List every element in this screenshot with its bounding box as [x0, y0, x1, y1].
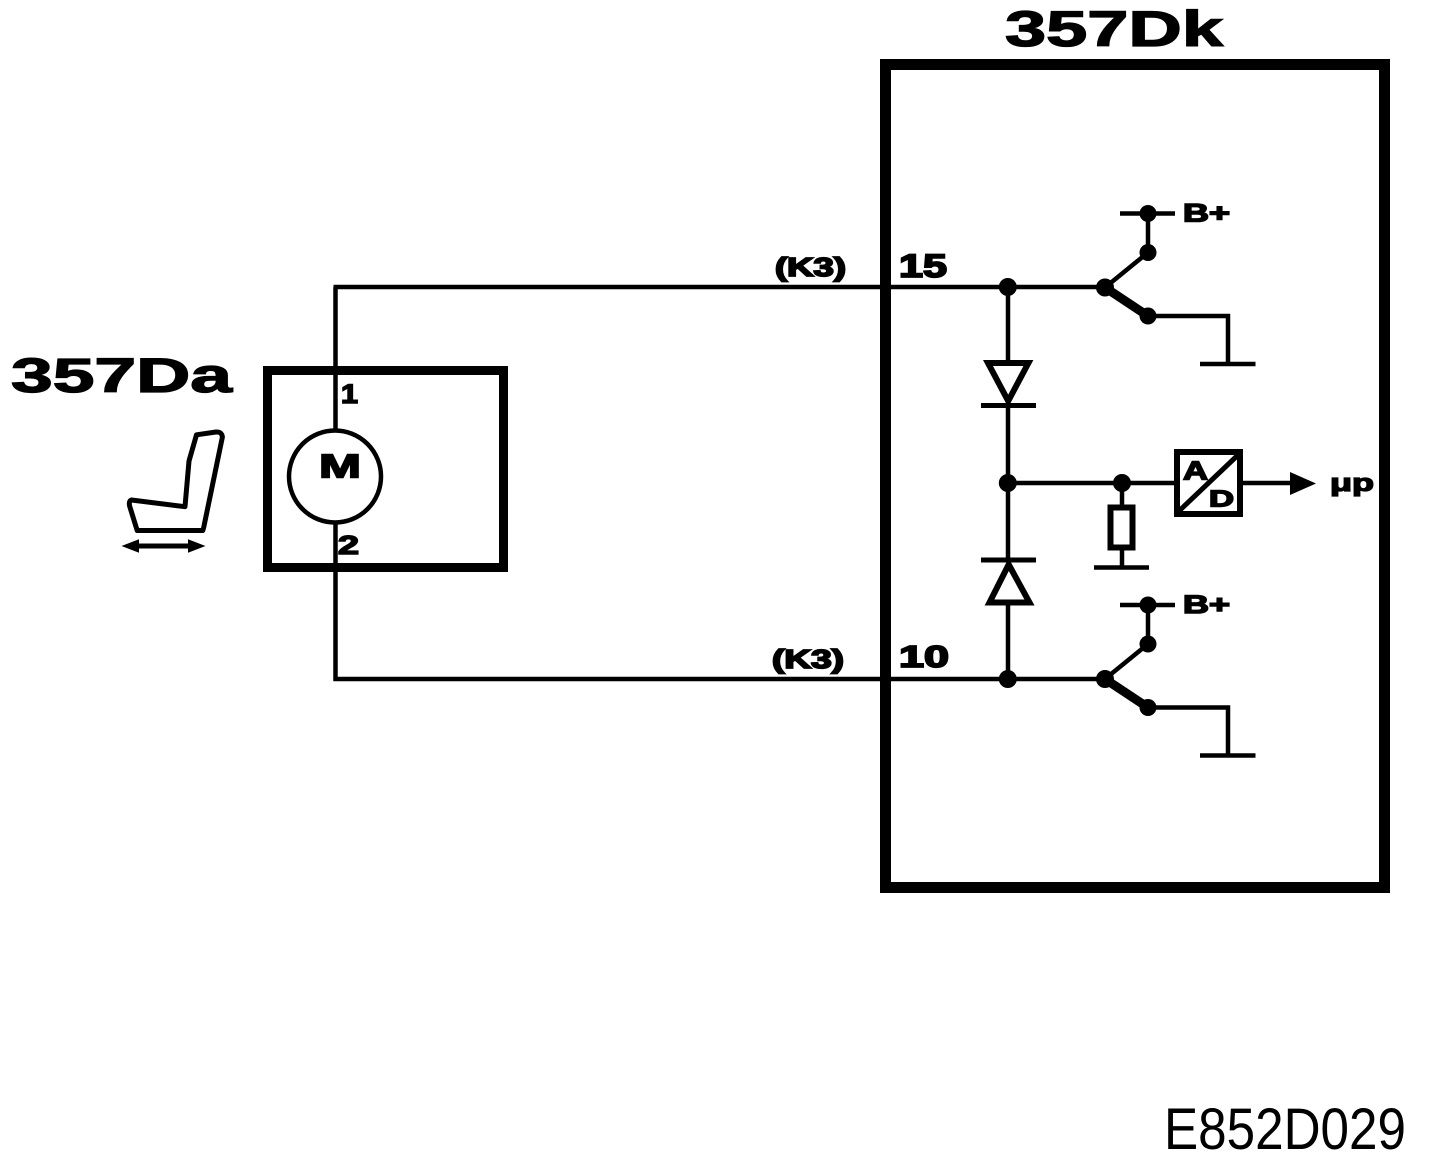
svg-text:357Dk: 357Dk — [1005, 1, 1223, 57]
wire A/D to microprocessor arrow — [1243, 472, 1316, 495]
node resistor junction — [1113, 474, 1131, 492]
svg-text:15: 15 — [899, 248, 947, 284]
K1 ground — [1200, 362, 1256, 367]
K2 NO contact node — [1140, 636, 1157, 653]
K2 switch blade — [1105, 679, 1148, 708]
K2 B+ feed line — [1120, 603, 1175, 608]
svg-text:μp: μp — [1330, 470, 1374, 497]
K1 B+ to NO contact wire — [1146, 214, 1151, 253]
seat adjust arrow — [122, 539, 206, 553]
K1 NO contact node — [1140, 244, 1157, 261]
wire D1 to mid node — [1006, 405, 1011, 484]
motor M1 circle — [289, 431, 381, 523]
K2 NC contact node — [1140, 699, 1157, 716]
resistor R1 — [1111, 508, 1133, 548]
K2 NC to ground wire — [1148, 708, 1228, 756]
svg-text:A: A — [1183, 456, 1208, 486]
svg-text:(K3): (K3) — [775, 252, 846, 282]
A/D converter U1 — [1177, 452, 1240, 514]
svg-text:E852D029: E852D029 — [1164, 1097, 1406, 1162]
control unit box 357Dk — [886, 65, 1385, 888]
K1 common node — [1096, 279, 1114, 297]
K2 B+ to NO contact wire — [1146, 605, 1151, 644]
K1 NC contact node — [1140, 308, 1157, 325]
K2 common node — [1096, 670, 1114, 688]
K1 B+ node — [1140, 205, 1157, 222]
seat icon — [129, 432, 222, 531]
K2 B+ node — [1140, 597, 1157, 614]
wire resistor to ground — [1120, 550, 1125, 567]
node junction wire15/diode D1 — [999, 278, 1017, 296]
K1 NO contact link — [1105, 253, 1148, 288]
relay switch K1 — [1096, 205, 1256, 364]
svg-text:(K3): (K3) — [772, 644, 844, 674]
K2 ground — [1200, 753, 1256, 758]
wire mid node to diode D2 — [1006, 483, 1011, 561]
svg-text:357Da: 357Da — [11, 350, 232, 403]
wire (K3) 15 horizontal — [334, 285, 1106, 290]
svg-text:D: D — [1209, 486, 1234, 512]
relay switch K2 — [1096, 597, 1256, 756]
ground resistor — [1094, 565, 1149, 570]
node mid junction — [999, 474, 1017, 492]
K1 NC to ground wire — [1148, 316, 1228, 364]
wire motor pin 1 vertical — [333, 287, 338, 432]
svg-text:1: 1 — [341, 379, 358, 409]
wire junction to diode D1 — [1006, 287, 1011, 364]
diode D1 (cathode down) — [981, 363, 1036, 406]
K1 switch blade — [1105, 288, 1148, 317]
motor box 357Da — [268, 371, 504, 568]
svg-text:B+: B+ — [1183, 591, 1230, 619]
wire node to resistor R1 — [1120, 483, 1125, 506]
wire motor pin 2 vertical — [333, 522, 338, 681]
svg-text:2: 2 — [338, 530, 359, 560]
K2 NO contact link — [1105, 644, 1148, 679]
node junction wire10/diode D2 — [999, 670, 1017, 688]
wire D2 to junction 10 — [1006, 603, 1011, 679]
diode D2 (cathode up) — [981, 560, 1036, 603]
K1 B+ feed line — [1120, 211, 1175, 216]
svg-text:M: M — [319, 448, 361, 485]
wire (K3) 10 horizontal — [334, 677, 1106, 682]
wire mid node to A/D — [1008, 481, 1174, 486]
svg-text:B+: B+ — [1183, 200, 1230, 228]
svg-text:10: 10 — [899, 639, 949, 674]
